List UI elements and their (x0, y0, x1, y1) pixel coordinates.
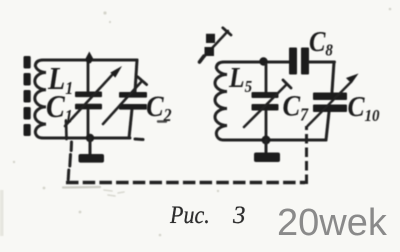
watermark 20wek (277, 204, 387, 242)
dashed mechanical gang link: left vertical (68, 142, 71, 180)
caption: Рис. 3 (0, 202, 1, 204)
junction dot at C7/ground node (262, 136, 271, 145)
wire: ground stem of left tank (89, 138, 92, 155)
wire: right edge of left tank (C2 branch) (129, 60, 137, 138)
capacitor C1 branch wires (87, 61, 90, 138)
inductor L5 (215, 62, 240, 140)
trimmer adjust symbol (top-left of right tank) (200, 28, 232, 62)
capacitor C7 branch wires (265, 64, 268, 140)
wire: ground stem of right tank (265, 140, 268, 152)
capacitor C10 variable arrow (308, 74, 359, 127)
left edge scan streak (0, 190, 4, 236)
capacitor C1 variable arrow (diagonal, head upper right) (65, 66, 122, 139)
junction dot on top rail (C7 node) (259, 57, 267, 65)
stray mark below C2 label (158, 120, 166, 122)
wire: bottom rail of right tank (233, 139, 326, 142)
capacitor C7 plates (252, 92, 279, 111)
capacitor C1 plates (75, 92, 102, 110)
dashed mechanical gang link: bottom rail (66, 181, 305, 185)
capacitor C2 trimmer stroke (103, 77, 147, 124)
capacitor C10 plates (313, 93, 347, 113)
small arrowhead piercing top rail at C1 branch (85, 52, 93, 60)
junction dot at C1/ground node (86, 134, 94, 142)
capacitor C8 plates (289, 48, 309, 75)
wire: bottom rail of left tank (50, 137, 130, 140)
wire: top rail left segment of right tank (231, 61, 289, 64)
dashed mechanical gang link: right vertical (305, 126, 308, 184)
stray dash right of bottom-right corner (135, 138, 143, 142)
inductor L1 (35, 60, 55, 138)
faint pencil smudge under dashed rail (63, 186, 100, 189)
wire: right edge of right tank (C10 branch) (326, 62, 334, 140)
ground bar (left tank) (79, 154, 105, 163)
ferrite rod core of L1 (dashed bar) (24, 56, 31, 136)
wire: top rail right segment of right tank (309, 61, 335, 64)
capacitor C7 trimmer stroke (244, 80, 291, 127)
capacitor C2 plates (119, 92, 147, 110)
junction blob at C1 branch / top rail (86, 58, 92, 64)
ground bar (right tank) (254, 153, 280, 163)
wire: top rail of left tank (50, 59, 137, 62)
